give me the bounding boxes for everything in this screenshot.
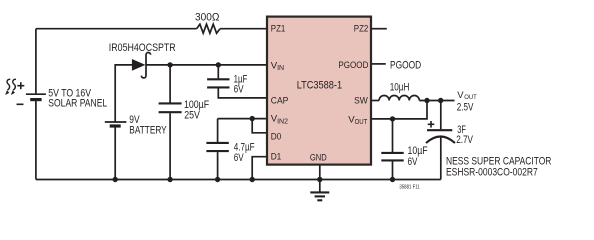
inductor L 10uH [379,95,419,100]
svg-text:LTC3588-1: LTC3588-1 [297,80,342,92]
svg-text:IR05H4OCSPTR: IR05H4OCSPTR [109,42,176,54]
capacitor C 10uF plate1 [381,152,403,154]
wire GND pin to rail [319,165,321,192]
supercapacitor 3F plate straight [427,129,452,131]
svg-text:PZ2: PZ2 [354,24,369,35]
svg-text:GND: GND [310,152,327,163]
svg-text:300Ω: 300Ω [195,12,219,24]
capacitor C 100uF vertical top [169,65,171,103]
svg-text:25V: 25V [184,109,200,121]
capacitor C 4.7uF vertical top [217,119,219,143]
solar panel plate thin [26,93,46,95]
wire node to VOUT pin [372,101,427,119]
wire SW to inductor [372,100,379,102]
capacitor C 4.7uF plate2 [206,150,228,152]
ground rail [36,179,441,181]
node VIN-100uF [167,62,172,67]
wire D1 to ground [252,157,266,180]
node rail-10uF [390,177,395,182]
node VOUT-10uF [390,116,395,121]
svg-text:V: V [457,90,464,101]
svg-text:ESHSR-0003CO-002R7: ESHSR-0003CO-002R7 [446,167,538,179]
solar minus sign [17,103,24,105]
wire top horizontal left of resistor [36,28,197,30]
solar plus sign [17,82,24,89]
node SW-supercap [438,98,443,103]
wire resistor to PZ1 [220,28,266,30]
wire supercap to rail [440,137,442,180]
ground symbol bar2 [315,195,325,197]
svg-text:D1: D1 [271,151,282,162]
diode D1 IR05H4OCSPTR triangle [132,59,146,71]
svg-text:OUT: OUT [464,94,477,101]
light squiggle arrow 1 [7,79,10,90]
svg-text:SW: SW [354,96,369,107]
wire VIN2 [218,118,266,120]
node rail-100uF [167,177,172,182]
capacitor C 4.7uF vertical bottom [217,152,219,179]
node rail-GND [317,177,322,182]
IC U1 LTC3588-1 body [267,17,371,165]
wire PZ2 stub [372,28,387,30]
svg-text:2.5V: 2.5V [457,102,474,114]
node VIN-1uF [216,62,221,67]
supercap plus sign [428,121,435,128]
svg-text:CAP: CAP [271,95,289,106]
solar panel plate thick [30,98,41,101]
svg-text:6V: 6V [234,84,245,96]
resistor R 300ohm [197,24,220,33]
capacitor C 1uF vertical top [217,65,219,79]
node rail-D1 [250,177,255,182]
node SW-VOUT [424,98,429,103]
svg-text:PGOOD: PGOOD [338,60,368,71]
capacitor C 10uF vertical bottom [392,161,394,179]
svg-text:10µH: 10µH [390,82,410,94]
capacitor C 10uF vertical top [392,119,394,152]
wire 1uF to CAP pin [218,88,266,98]
svg-text:6V: 6V [408,156,419,168]
capacitor C 100uF plate1 [159,102,182,104]
wire battery vertical [114,126,116,180]
wire left vertical from top to solar cell [35,29,37,94]
svg-text:SOLAR PANEL: SOLAR PANEL [48,98,107,110]
node rail-4.7uF [215,177,220,182]
battery 9V plate thin [105,121,127,123]
svg-text:PZ1: PZ1 [271,24,286,35]
node VIN2-D0 [250,116,255,121]
node rail-battery [113,177,118,182]
supercapacitor 3F plate curved [426,137,455,144]
wire battery to diode level [115,65,132,122]
wire supercap vertical top [440,101,442,130]
capacitor C 4.7uF plate1 [206,142,228,144]
diode cathode squiggle [141,53,150,78]
svg-text:6V: 6V [234,152,244,164]
svg-text:D0: D0 [271,131,282,142]
wire D0 to VIN2 [252,119,266,133]
svg-text:35881 F11: 35881 F11 [399,184,419,190]
capacitor C 1uF plate1 [207,78,229,80]
svg-text:PGOOD: PGOOD [390,60,421,72]
wire diode cathode to VIN [146,64,266,66]
light squiggle arrow 2 [13,79,16,90]
capacitor C 100uF vertical bottom [169,113,171,179]
wire inductor to VOUT label [419,100,454,102]
svg-text:BATTERY: BATTERY [129,124,167,136]
capacitor C 10uF plate2 [381,159,403,161]
capacitor C 100uF plate2 [159,111,182,113]
svg-text:2.7V: 2.7V [456,134,473,146]
wire PGOOD stub [372,63,386,65]
wire solar cell to ground rail [35,100,37,180]
ground symbol bar3 [317,199,322,201]
capacitor C 1uF plate2 [207,86,229,88]
battery 9V plate thick [110,124,121,127]
ground symbol bar1 [310,191,329,193]
